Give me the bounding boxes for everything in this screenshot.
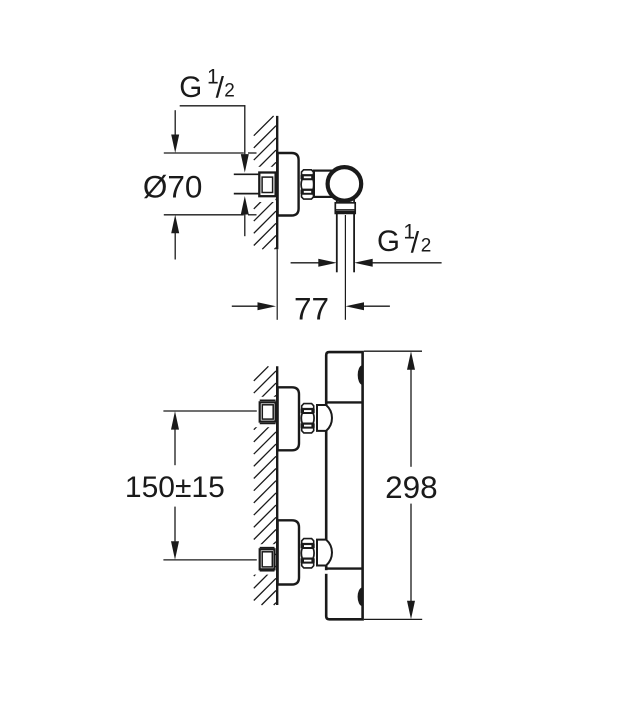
arrow down to lower axis line: [171, 541, 179, 560]
wire supply pipe stub top line: [234, 173, 259, 175]
svg-text:/: /: [411, 226, 420, 259]
lower escutcheon (bottom view): [278, 520, 299, 584]
svg-text:2: 2: [421, 236, 432, 257]
arrow to bottom of nipple: [241, 196, 249, 215]
wall surface line (top view): [276, 116, 278, 249]
svg-text:G: G: [377, 225, 400, 258]
square inlet nipple (inner): [262, 177, 273, 192]
wire outlet pipe right line: [353, 213, 355, 272]
dim line left vertical: [174, 110, 176, 134]
wire outlet pipe left line: [336, 213, 338, 272]
arrow up to upper axis line: [171, 411, 179, 430]
dim shaft below arrow: [244, 215, 246, 237]
upper union nut (bottom view): [301, 404, 315, 433]
wire supply pipe stub bottom line: [234, 193, 259, 195]
upper nipple flange top: [260, 399, 276, 401]
lower nipple flange top: [260, 547, 275, 549]
wall line thin extension down to 77 dimension: [276, 249, 278, 320]
arrow up to body top: [407, 351, 415, 370]
mixer body bar: [326, 352, 362, 619]
body joint line upper (cap/body): [326, 401, 362, 403]
upper escutcheon (bottom view): [278, 387, 299, 450]
ext line escutcheon top: [164, 152, 244, 154]
wall surface line (bottom view): [276, 366, 278, 605]
escutcheon / wall rosette Ø70 (side view): [278, 153, 299, 216]
dim G1/2 right: left shaft: [291, 262, 319, 264]
lower nipple flange bottom: [260, 570, 275, 572]
arrow up to escutcheon bottom line: [171, 215, 179, 234]
upper handle edge (dark lens): [358, 366, 362, 385]
dash ext bottom: [248, 214, 257, 216]
dim 150 lower shaft: [174, 507, 176, 542]
arrow to pipe right line: [354, 259, 373, 267]
dim 150 upper shaft: [174, 429, 176, 465]
arrow down to body bottom: [407, 601, 415, 620]
dim 298 upper shaft: [410, 369, 412, 467]
lower inlet boss (dome): [317, 540, 332, 566]
valve body (circular, side view): [328, 167, 362, 201]
union nut on inlet (top view): [301, 170, 315, 199]
svg-text:/: /: [216, 72, 225, 105]
upper square nipple inner: [262, 405, 273, 419]
wall hatching (bottom view): [254, 366, 276, 605]
ext line body top: [364, 350, 422, 352]
ext line escutcheon bottom: [164, 214, 244, 216]
svg-text:298: 298: [385, 469, 438, 505]
upper inlet boss (dome): [317, 405, 332, 431]
wall hatching (top view): [254, 116, 276, 249]
square inlet nipple (outer): [259, 173, 275, 197]
lower square nipple inner: [262, 552, 272, 567]
right shaft: [373, 262, 442, 264]
svg-text:2: 2: [224, 81, 235, 102]
arrow to escutcheon top ext line: [171, 135, 179, 154]
body joint line lower (body/cap): [326, 567, 362, 569]
wire neck left: [336, 199, 338, 203]
wire neck right: [353, 199, 355, 203]
lower square nipple outer: [260, 549, 275, 569]
dim 77 left shaft: [232, 305, 258, 307]
ext line body bottom: [364, 618, 422, 620]
arrow to wall line: [258, 302, 277, 310]
svg-text:Ø70: Ø70: [143, 168, 203, 204]
hose collar ring: [335, 203, 355, 214]
arrow to pipe left line: [318, 259, 337, 267]
dimension G1/2 top: leader line: [180, 105, 246, 107]
svg-text:77: 77: [294, 291, 329, 327]
dim 298 lower shaft: [410, 504, 412, 602]
svg-text:G: G: [179, 71, 202, 104]
arrow to pipe centerline: [346, 302, 365, 310]
upper square nipple outer: [260, 402, 276, 421]
outlet pipe centerline: [344, 215, 346, 320]
dim line right vertical: [244, 105, 246, 154]
dim 77 right shaft: [364, 305, 390, 307]
lower handle edge (dark lens): [358, 588, 362, 606]
ext line upper S-union axis: [163, 410, 256, 412]
arrow to top of nipple: [241, 154, 249, 173]
connector block to valve body: [314, 171, 333, 197]
svg-text:150±15: 150±15: [125, 471, 225, 504]
lower union nut (bottom view): [301, 539, 315, 568]
dash ext top: [248, 152, 257, 154]
upper nipple flange bottom: [260, 423, 276, 425]
ext line lower S-union axis: [163, 559, 256, 561]
